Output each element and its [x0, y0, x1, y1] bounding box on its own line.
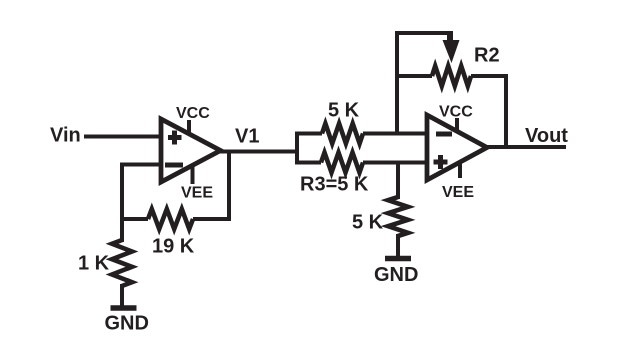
op-amp U2: [427, 115, 487, 180]
wire R2 right leg vertical: [504, 74, 508, 149]
svg-text:1 K: 1 K: [78, 253, 110, 275]
power VEE pin U1: [191, 165, 195, 184]
power VEE pin U2: [458, 162, 462, 178]
resistor R3: [321, 153, 363, 173]
power VCC pin U2: [455, 118, 459, 132]
svg-text:GND: GND: [105, 313, 149, 335]
wire 5K mid to ground: [396, 234, 400, 256]
ground GND1 bar: [111, 305, 137, 311]
svg-text:V1: V1: [235, 126, 259, 148]
ground GND2 bar: [385, 256, 411, 262]
wire R2 left leg vertical: [395, 31, 399, 136]
wire U2 output Vout: [485, 145, 566, 149]
wire bottom branch left lead: [295, 161, 321, 165]
svg-text:19 K: 19 K: [152, 236, 195, 258]
svg-text:VEE: VEE: [181, 185, 213, 202]
power VCC pin U1: [187, 120, 191, 133]
wire 5K mid top lead: [396, 161, 400, 200]
svg-text:5 K: 5 K: [352, 212, 384, 234]
resistor 5K mid: [388, 197, 408, 236]
wire U1 inverting input: [120, 163, 163, 167]
wire 1K to ground: [120, 284, 124, 306]
svg-text:VCC: VCC: [439, 104, 473, 121]
op-amp U1: [161, 119, 221, 182]
svg-text:5 K: 5 K: [328, 100, 360, 122]
svg-text:Vout: Vout: [525, 125, 568, 147]
svg-text:R3=5 K: R3=5 K: [300, 174, 369, 196]
svg-text:R2: R2: [474, 45, 500, 67]
potentiometer R2 resistor body: [432, 66, 471, 86]
wire U1 output to node V1: [218, 150, 299, 154]
svg-text:VCC: VCC: [176, 105, 210, 122]
wire junction vertical at V1 split: [295, 132, 299, 165]
potentiometer R2 wiper arrow: [443, 31, 460, 63]
wire R2 wiper top: [395, 31, 450, 35]
svg-text:VEE: VEE: [442, 184, 474, 201]
wire R2 right lead: [471, 74, 508, 78]
wire Vin to op-amp U1 + input: [84, 135, 163, 139]
resistor 5K top: [322, 124, 363, 144]
wire feedback right vertical: [227, 150, 231, 222]
wire 19K left lead: [120, 217, 148, 221]
wire bottom branch to U2 non-inverting input: [363, 161, 429, 165]
svg-text:GND: GND: [374, 264, 418, 286]
resistor R 19K: [148, 209, 193, 229]
resistor R 1K: [112, 240, 132, 286]
wire 19K right lead: [193, 217, 231, 221]
wire top branch to U2 inverting input: [363, 132, 429, 136]
wire feedback left vertical: [120, 163, 124, 243]
svg-text:Vin: Vin: [50, 125, 81, 147]
wire R2 left lead: [395, 74, 432, 78]
wire top branch left lead: [295, 132, 322, 136]
